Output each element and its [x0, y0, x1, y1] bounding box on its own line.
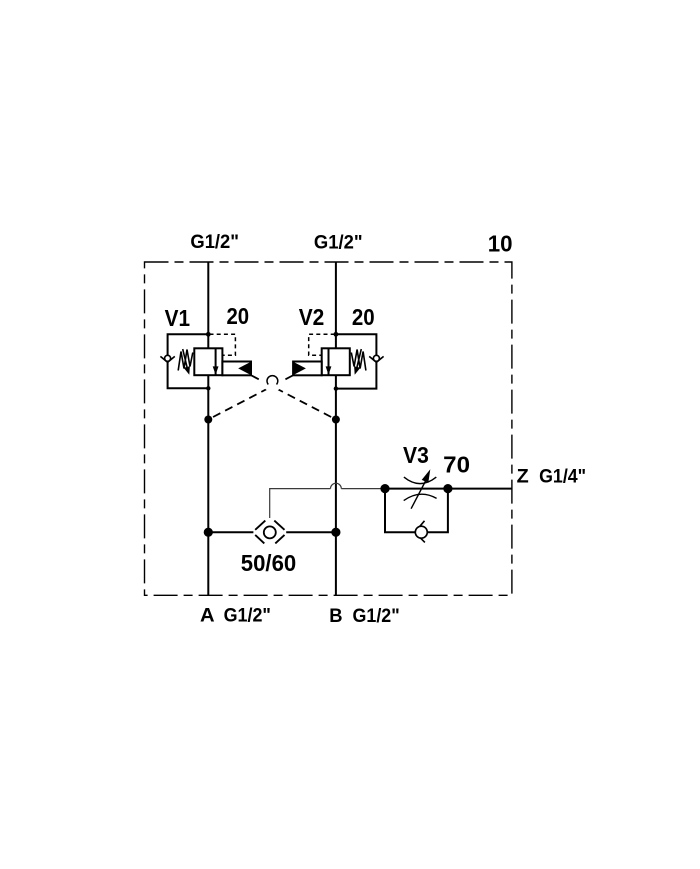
svg-text:20: 20	[227, 303, 250, 329]
V3 adjust arrow	[411, 481, 426, 509]
node: V1 top junction	[206, 332, 211, 337]
svg-text:V1: V1	[165, 305, 190, 331]
check valve ball V2	[369, 355, 383, 362]
shuttle valve 50/60	[255, 521, 284, 544]
node: V1 bypass return junction	[206, 386, 210, 390]
node: V3 right junction	[443, 484, 452, 493]
svg-text:G1/2": G1/2"	[224, 604, 271, 626]
node: shuttle right junction	[331, 528, 340, 537]
node: V2 bypass return junction	[334, 386, 338, 390]
pilot actuator V2	[293, 362, 322, 376]
valve body V2	[322, 348, 350, 375]
svg-text:20: 20	[352, 304, 375, 330]
svg-text:V3: V3	[403, 442, 429, 468]
svg-text:B: B	[329, 605, 342, 627]
svg-text:G1/2": G1/2"	[353, 605, 400, 627]
node: shuttle left junction	[204, 528, 213, 537]
pilot cross line V1-to-line2 (dashed diagonal)	[252, 376, 336, 420]
svg-text:V2: V2	[299, 304, 325, 330]
V3 throttle arcs	[404, 477, 436, 484]
node: line2 pilot junction	[332, 416, 340, 424]
pilot dashed line V2	[309, 334, 335, 355]
wire: shuttle cross line A-B left segment	[208, 531, 253, 533]
wire: V1 bypass loop	[168, 334, 209, 388]
check valve ball V1	[160, 355, 174, 362]
pilot actuator V1	[222, 362, 251, 376]
svg-text:50/60: 50/60	[241, 550, 296, 576]
wire: V2 bypass loop	[336, 334, 377, 388]
spring V2 (adjustable)	[351, 349, 366, 370]
svg-text:10: 10	[488, 230, 513, 256]
pilot dashed line V1	[210, 334, 236, 355]
svg-text:70: 70	[443, 452, 470, 478]
spring V1 (adjustable)	[178, 349, 193, 370]
wire: V3 feed line to Z port	[381, 488, 512, 490]
svg-text:G1/4": G1/4"	[539, 466, 586, 488]
svg-text:A: A	[200, 604, 215, 626]
svg-text:G1/2": G1/2"	[190, 231, 239, 253]
wire: main line 1 (port A vertical)	[207, 262, 209, 595]
crossing jump circle	[263, 373, 282, 392]
valve body V1	[194, 348, 222, 375]
svg-text:G1/2": G1/2"	[314, 231, 363, 253]
wire: shuttle output (thin)	[270, 483, 381, 518]
node: V2 top junction	[334, 332, 339, 337]
svg-text:Z: Z	[517, 466, 529, 488]
pilot cross line V2-to-line1 (dashed diagonal)	[208, 376, 292, 420]
wire: shuttle cross line A-B right segment	[286, 531, 336, 533]
node: line1 pilot junction	[204, 416, 212, 424]
wire: V3 bypass rectangle (flow regulator V3)	[385, 489, 448, 533]
wire: main line 2 (port B vertical)	[335, 262, 337, 595]
enclosure border (dash-dot)	[145, 262, 512, 595]
node: V3 left junction	[380, 484, 389, 493]
V3 check valve	[415, 521, 428, 543]
